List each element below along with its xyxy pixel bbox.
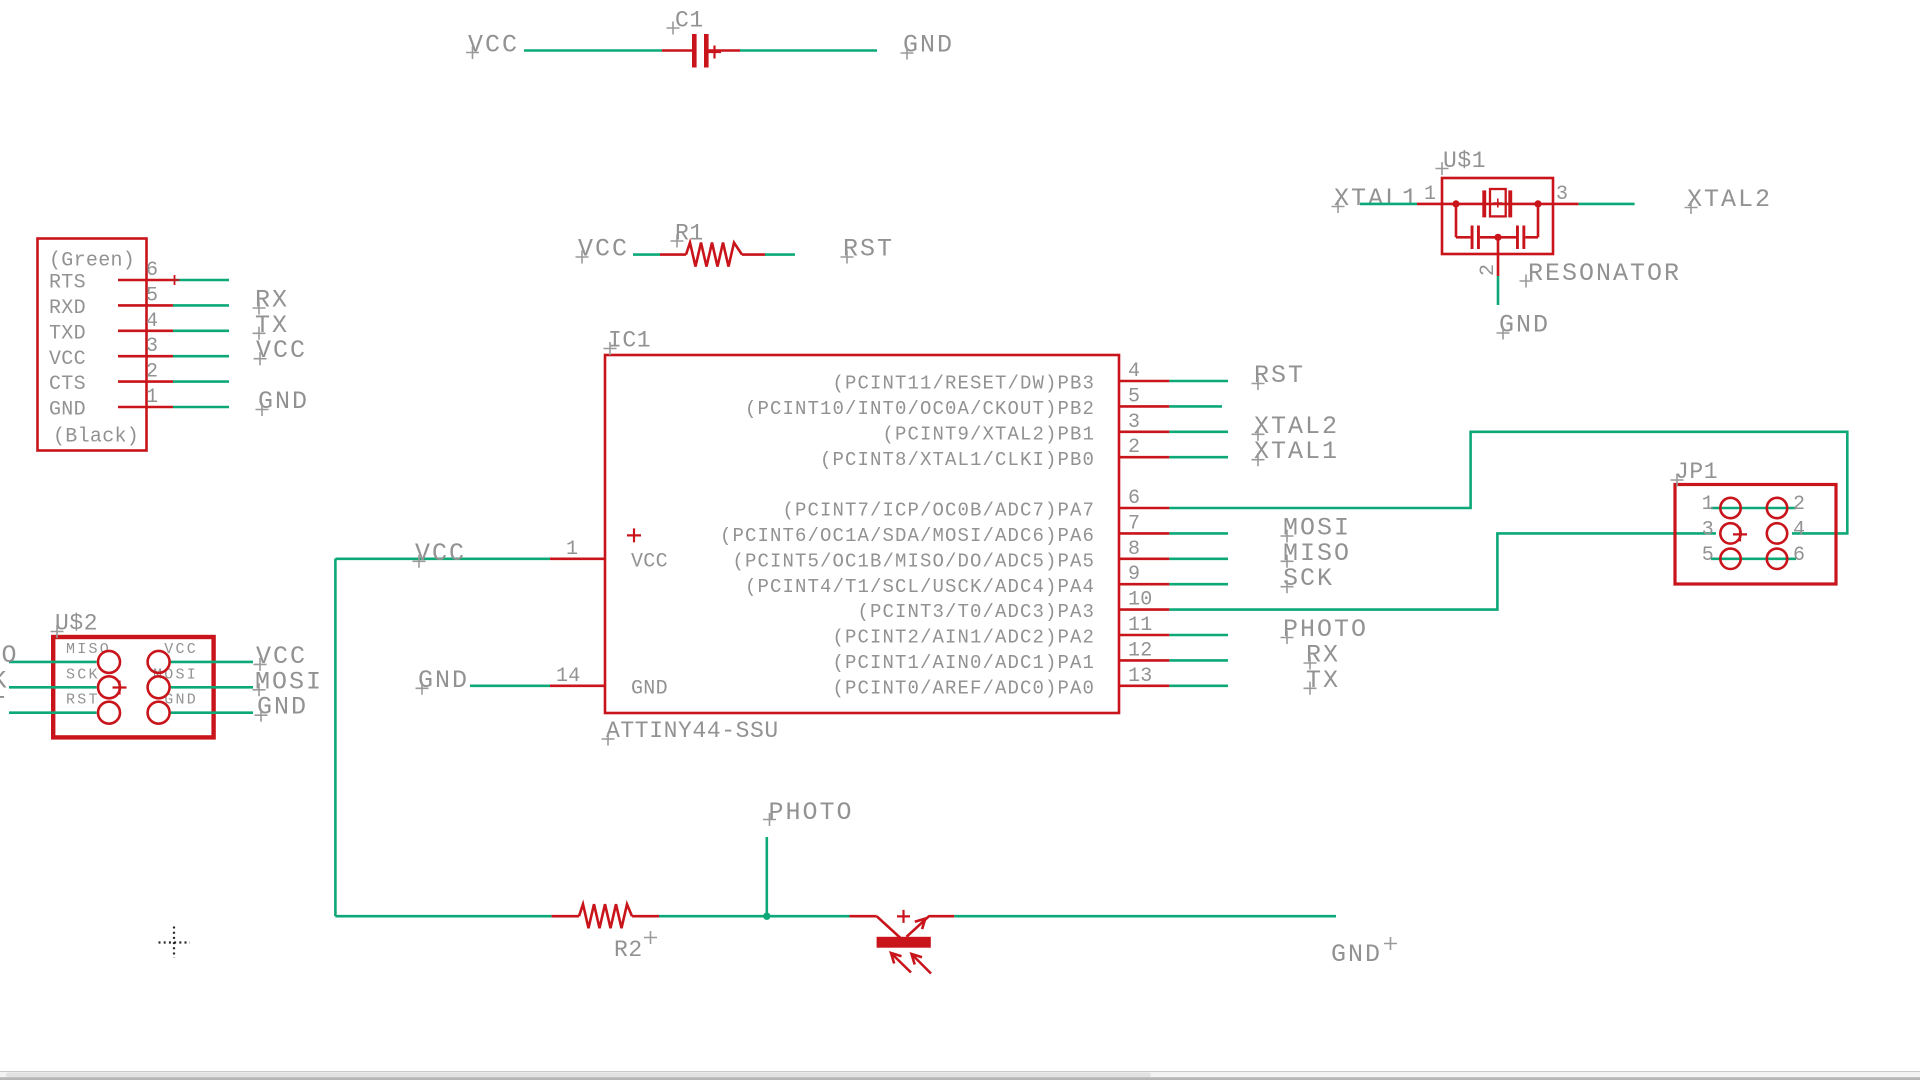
wire pin3 to XTAL2 <box>1579 203 1635 206</box>
crystal element <box>1482 189 1512 217</box>
wire C1 to GND <box>740 49 877 52</box>
mouse crosshair <box>159 927 191 959</box>
svg-text:(PCINT0/AREF/ADC0)PA0: (PCINT0/AREF/ADC0)PA0 <box>832 677 1095 699</box>
U$2 pad 3 <box>98 676 120 698</box>
svg-text:VCC: VCC <box>415 539 466 568</box>
svg-text:GND: GND <box>49 399 86 422</box>
junction dot right <box>1534 200 1541 207</box>
svg-text:(PCINT11/RESET/DW)PB3: (PCINT11/RESET/DW)PB3 <box>832 373 1095 395</box>
JP1 pad 4 <box>1767 523 1787 543</box>
pin 6 line <box>118 279 173 282</box>
wire pin8 to MISO <box>1169 557 1228 560</box>
right internal cap <box>1498 226 1538 250</box>
svg-text:6: 6 <box>146 259 158 282</box>
U$2 pad 1 <box>98 651 120 673</box>
svg-text:VCC: VCC <box>468 31 519 60</box>
JP1 body <box>1675 485 1836 585</box>
wire VCC to C1 <box>524 49 662 52</box>
junction dot bottom <box>1494 234 1501 241</box>
svg-text:CTS: CTS <box>49 373 86 396</box>
svg-text:8: 8 <box>1128 538 1140 561</box>
svg-text:TX: TX <box>1306 666 1340 695</box>
pin 14 stub <box>550 684 605 687</box>
svg-text:ATTINY44-SSU: ATTINY44-SSU <box>606 718 779 744</box>
pin 1 stub <box>550 557 605 560</box>
pin 10 stub <box>1119 608 1169 611</box>
junction dot left <box>1452 200 1459 207</box>
IC1 body <box>605 355 1119 713</box>
svg-text:2: 2 <box>1128 436 1140 459</box>
pin 2 stub (res) <box>1497 237 1500 276</box>
svg-text:(PCINT1/AIN0/ADC1)PA1: (PCINT1/AIN0/ADC1)PA1 <box>832 652 1095 674</box>
svg-text:RTS: RTS <box>49 272 86 295</box>
svg-text:XTAL1: XTAL1 <box>1334 184 1419 213</box>
svg-text:7: 7 <box>1128 512 1140 535</box>
svg-text:9: 9 <box>1128 563 1140 586</box>
svg-text:5: 5 <box>1702 544 1714 567</box>
svg-text:(PCINT2/AIN1/ADC2)PA2: (PCINT2/AIN1/ADC2)PA2 <box>832 627 1095 649</box>
svg-text:1: 1 <box>146 386 158 409</box>
svg-text:RST: RST <box>0 692 7 721</box>
left drop <box>1455 204 1458 237</box>
pin 11 stub <box>1119 634 1169 637</box>
svg-text:4: 4 <box>1128 360 1140 383</box>
JP1 pad 6 <box>1767 549 1787 569</box>
svg-text:GND: GND <box>903 31 954 60</box>
wire pin4 to TX <box>173 329 229 332</box>
wire XTAL1 to pin1 <box>1360 203 1417 206</box>
pin 2 stub <box>1119 456 1169 459</box>
svg-text:(PCINT6/OC1A/SDA/MOSI/ADC6)PA6: (PCINT6/OC1A/SDA/MOSI/ADC6)PA6 <box>720 525 1095 547</box>
svg-text:RST: RST <box>1254 361 1305 390</box>
wire Q1 to GND <box>954 915 1336 918</box>
svg-text:5: 5 <box>1128 385 1140 408</box>
pin 6 stub <box>1119 507 1169 510</box>
svg-text:SCK: SCK <box>1283 564 1334 593</box>
svg-text:C1: C1 <box>675 8 704 34</box>
phototransistor Q1 <box>850 910 955 974</box>
svg-text:VCC: VCC <box>49 348 86 371</box>
wire pin7 to MOSI <box>1169 532 1228 535</box>
svg-text:14: 14 <box>556 665 581 688</box>
svg-text:(PCINT4/T1/SCL/USCK/ADC4)PA4: (PCINT4/T1/SCL/USCK/ADC4)PA4 <box>745 576 1095 598</box>
resistor R2 <box>552 904 659 928</box>
svg-text:VCC: VCC <box>164 641 198 658</box>
U$2 pad 4 <box>148 676 170 698</box>
wire pin10 to JP1 pin3 <box>1169 533 1716 609</box>
svg-text:(Green): (Green) <box>49 250 135 273</box>
svg-text:(PCINT3/T0/ADC3)PA3: (PCINT3/T0/ADC3)PA3 <box>857 601 1095 623</box>
svg-text:10: 10 <box>1128 589 1153 612</box>
svg-text:1: 1 <box>1702 493 1714 516</box>
wire GND out <box>170 711 253 714</box>
svg-text:U$1: U$1 <box>1443 148 1486 174</box>
svg-text:1: 1 <box>566 538 578 561</box>
pin 1 stub (res) <box>1417 203 1442 206</box>
pin 4 line <box>118 329 173 332</box>
svg-text:12: 12 <box>1128 639 1153 662</box>
svg-text:XTAL1: XTAL1 <box>1254 437 1339 466</box>
JP1 pad 2 <box>1767 498 1787 518</box>
wire pin1 to GND <box>173 406 229 409</box>
pin 4 stub <box>1119 380 1169 383</box>
svg-text:MOSI: MOSI <box>153 666 198 683</box>
svg-text:6: 6 <box>1793 544 1805 567</box>
svg-text:5: 5 <box>146 284 158 307</box>
svg-text:GND: GND <box>257 693 308 722</box>
svg-text:3: 3 <box>1556 183 1568 206</box>
svg-text:4: 4 <box>1793 518 1805 541</box>
U$2 body <box>53 637 213 737</box>
svg-text:3: 3 <box>1702 518 1714 541</box>
U$2 pad 2 <box>148 651 170 673</box>
svg-text:11: 11 <box>1128 614 1153 637</box>
wire VCC to R1 <box>633 253 660 256</box>
pin 3 stub <box>1119 430 1169 433</box>
U$2 origin cross <box>113 681 127 695</box>
wire R1 to RST <box>765 253 795 256</box>
svg-text:SCK: SCK <box>66 666 100 683</box>
svg-text:TXD: TXD <box>49 322 86 345</box>
svg-text:6: 6 <box>1128 487 1140 510</box>
pin 8 stub <box>1119 557 1169 560</box>
svg-text:(PCINT10/INT0/OC0A/CKOUT)PB2: (PCINT10/INT0/OC0A/CKOUT)PB2 <box>745 398 1095 420</box>
pin 9 stub <box>1119 583 1169 586</box>
capacitor C1 <box>662 34 740 68</box>
connector body <box>38 239 147 451</box>
scrollbar <box>0 1071 1920 1072</box>
wire PHOTO drop <box>765 837 768 916</box>
wire pin3 to VCC <box>173 355 229 358</box>
svg-text:PHOTO: PHOTO <box>769 798 854 827</box>
right drop <box>1537 204 1540 237</box>
wire SCK in <box>9 686 97 689</box>
svg-text:GND: GND <box>164 692 198 709</box>
svg-text:(Black): (Black) <box>53 426 139 449</box>
resonator body <box>1442 178 1553 254</box>
JP1 wire 5-6 <box>1711 557 1796 560</box>
svg-text:GND: GND <box>258 387 309 416</box>
svg-text:VCC: VCC <box>578 235 629 264</box>
wire pin4 to RST <box>1169 380 1228 383</box>
resistor R1 <box>660 243 765 267</box>
wire R2 to junction <box>659 915 850 918</box>
JP1 wire 1-2 <box>1711 507 1796 510</box>
svg-text:2: 2 <box>1477 264 1500 276</box>
svg-text:JP1: JP1 <box>1675 459 1718 485</box>
wire VCC rail to R2 <box>335 915 551 918</box>
pin 2 line <box>118 380 173 383</box>
wire RST in <box>9 711 97 714</box>
pin 1 line <box>118 406 173 409</box>
JP1 pad 1 <box>1720 498 1740 518</box>
svg-text:(PCINT5/OC1B/MISO/DO/ADC5)PA5: (PCINT5/OC1B/MISO/DO/ADC5)PA5 <box>732 550 1095 572</box>
pin 5 line <box>118 304 173 307</box>
svg-text:XTAL2: XTAL2 <box>1687 185 1772 214</box>
svg-text:1: 1 <box>1424 183 1436 206</box>
internal top line <box>1442 203 1553 206</box>
pin 3 line <box>118 355 173 358</box>
svg-text:2: 2 <box>146 361 158 384</box>
svg-text:4: 4 <box>146 310 158 333</box>
svg-text:RST: RST <box>843 235 894 264</box>
svg-text:(PCINT7/ICP/OC0B/ADC7)PA7: (PCINT7/ICP/OC0B/ADC7)PA7 <box>782 500 1095 522</box>
connector origin cross <box>170 275 180 285</box>
svg-text:RESONATOR: RESONATOR <box>1528 259 1681 288</box>
svg-text:U$2: U$2 <box>55 611 98 637</box>
svg-text:VCC: VCC <box>256 336 307 365</box>
svg-text:2: 2 <box>1793 493 1805 516</box>
svg-text:MISO: MISO <box>66 641 111 658</box>
pin 3 stub (res) <box>1553 203 1579 206</box>
svg-text:VCC: VCC <box>631 550 668 573</box>
svg-text:GND: GND <box>1331 940 1382 969</box>
svg-text:R2: R2 <box>614 937 643 963</box>
pin 13 stub <box>1119 684 1169 687</box>
wire pin13 to TX <box>1169 684 1228 687</box>
wire MOSI out <box>170 686 253 689</box>
pin 5 stub <box>1119 405 1169 408</box>
svg-text:GND: GND <box>1499 311 1550 340</box>
wire VCC to pin1 <box>335 557 550 560</box>
svg-text:IC1: IC1 <box>608 328 651 354</box>
wire pin2 to XTAL1 <box>1169 456 1228 459</box>
svg-text:R1: R1 <box>675 221 704 247</box>
svg-text:13: 13 <box>1128 665 1153 688</box>
wire pin11 to PHOTO <box>1169 634 1228 637</box>
wire VCC rail down <box>334 559 337 916</box>
pin 12 stub <box>1119 659 1169 662</box>
wire pin6 <box>173 279 229 282</box>
wire VCC out <box>170 661 253 664</box>
wire pin5 to RX <box>173 304 229 307</box>
junction dot <box>763 913 770 920</box>
svg-text:GND: GND <box>418 666 469 695</box>
U$2 pad 6 <box>148 702 170 724</box>
wire pin3 to XTAL2 <box>1169 430 1228 433</box>
svg-text:3: 3 <box>146 335 158 358</box>
wire pin12 to RX <box>1169 659 1228 662</box>
wire pin2 <box>173 380 229 383</box>
wire pin9 to SCK <box>1169 583 1228 586</box>
JP1 pad 3 <box>1720 523 1740 543</box>
left internal cap <box>1456 226 1498 250</box>
JP1 pad 5 <box>1720 549 1740 569</box>
wire pin5 <box>1169 405 1222 408</box>
svg-text:GND: GND <box>631 677 668 700</box>
wire pin6 to JP1 pin4 <box>1169 432 1847 534</box>
svg-text:RXD: RXD <box>49 297 86 320</box>
wire GND to pin14 <box>470 684 550 687</box>
IC origin cross <box>627 528 641 542</box>
wire pin2 to GND <box>1497 276 1500 305</box>
U$2 pad 5 <box>98 702 120 724</box>
JP1 origin cross <box>1733 527 1747 541</box>
svg-text:(PCINT9/XTAL2)PB1: (PCINT9/XTAL2)PB1 <box>882 423 1095 445</box>
svg-text:RST: RST <box>66 692 100 709</box>
pin 7 stub <box>1119 532 1169 535</box>
svg-text:3: 3 <box>1128 411 1140 434</box>
svg-text:(PCINT8/XTAL1/CLKI)PB0: (PCINT8/XTAL1/CLKI)PB0 <box>820 449 1095 471</box>
wire MISO in <box>9 661 97 664</box>
